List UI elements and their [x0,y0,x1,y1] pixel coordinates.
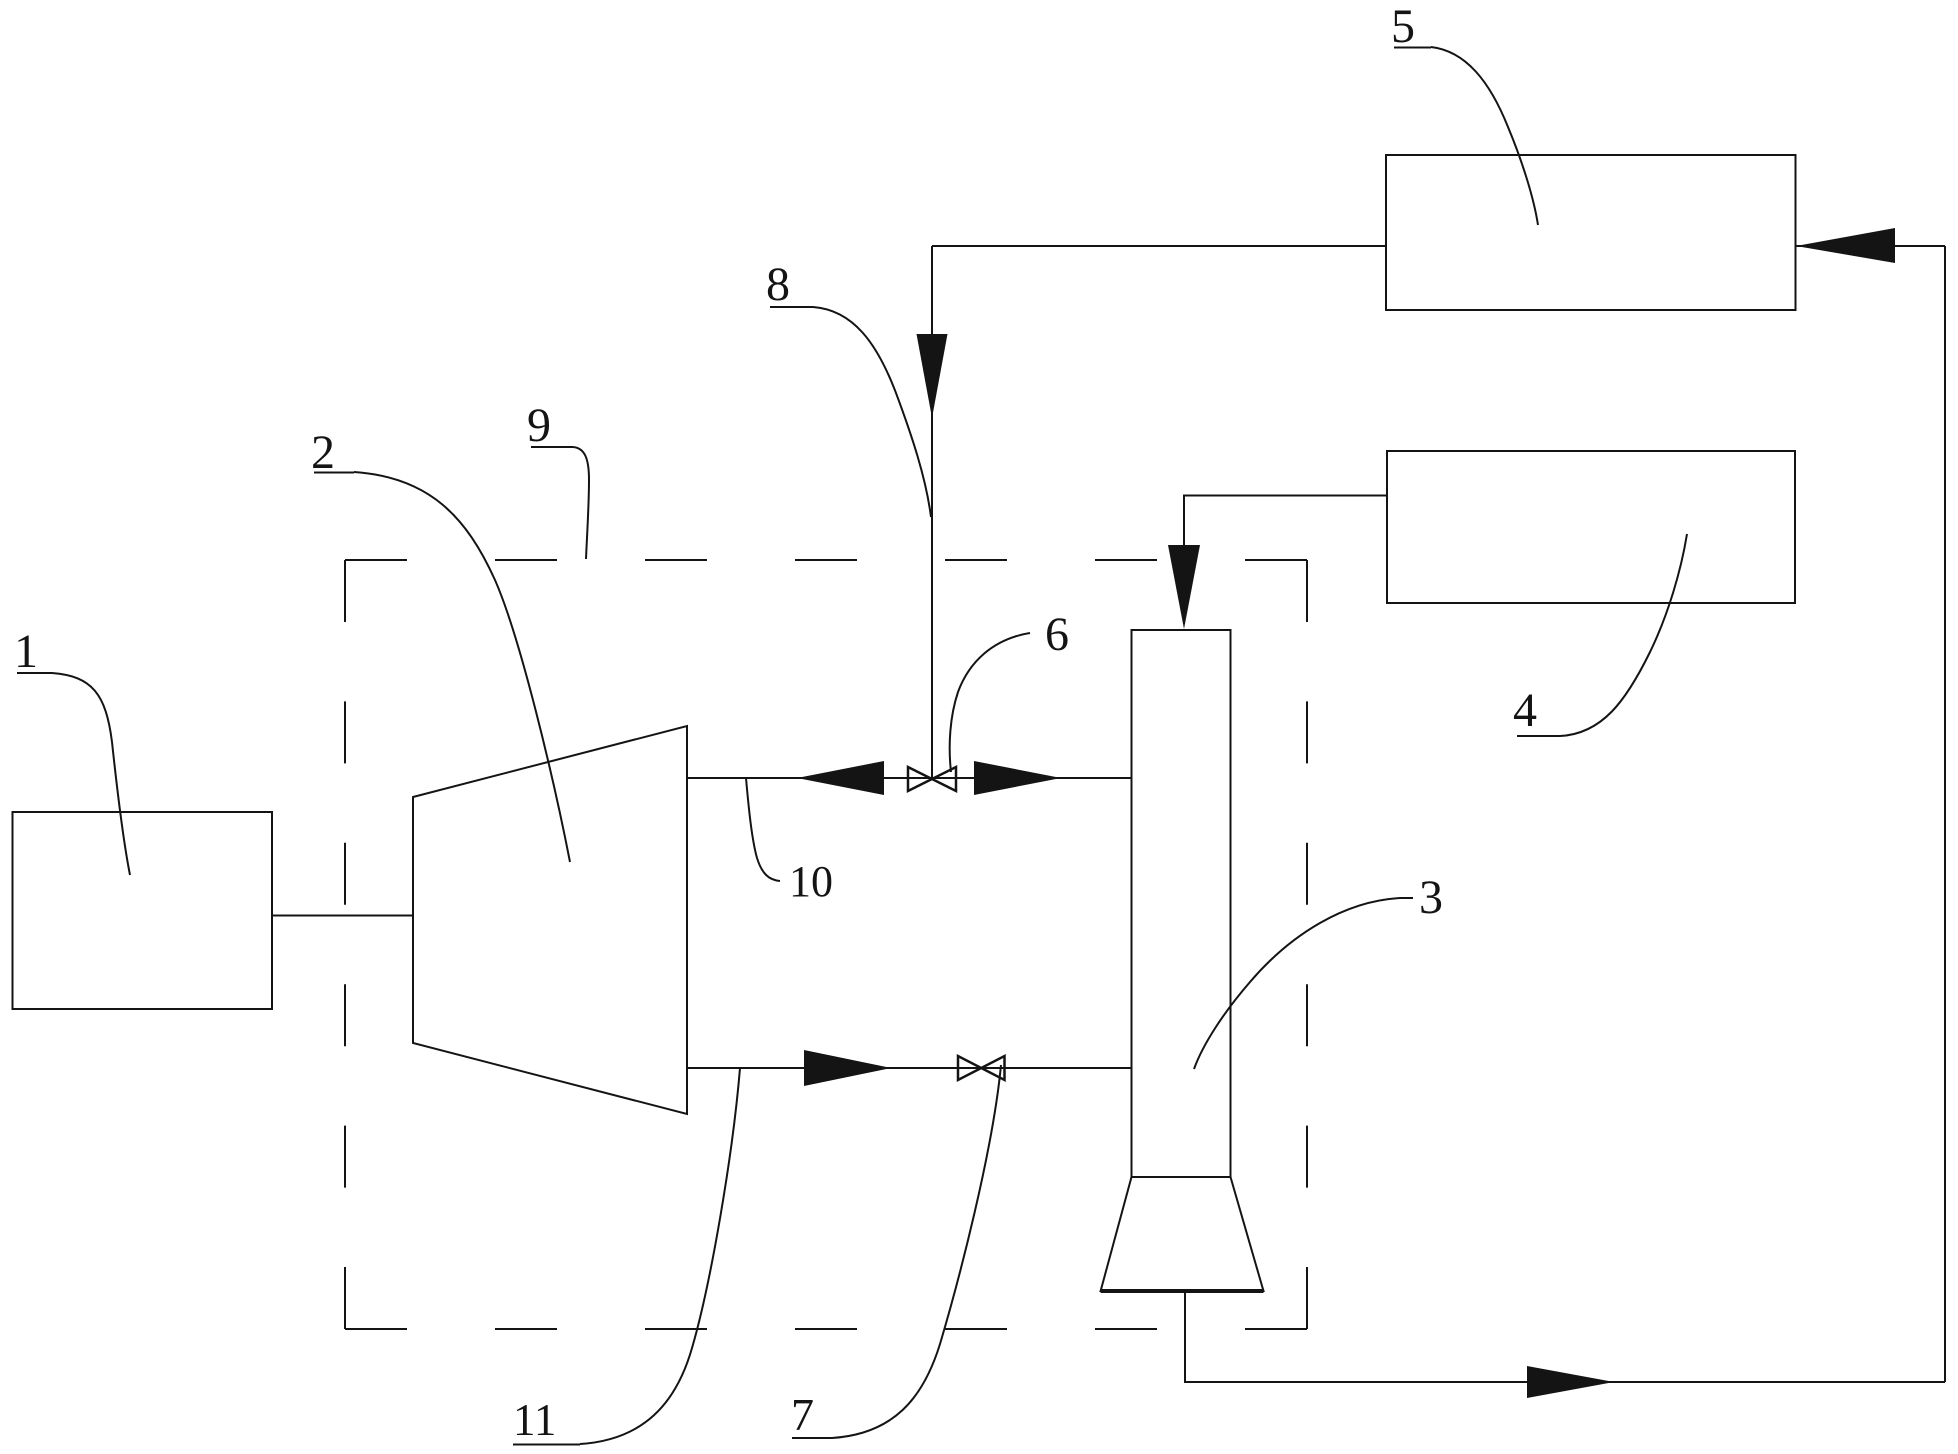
label 1 underline [17,672,52,674]
dashed boundary 9 bottom edge [345,1328,1307,1330]
leader 4 [1560,534,1687,736]
arrow down into column 3 [1168,545,1200,629]
arrow left into box 5 [1796,228,1895,263]
box 4 [1387,451,1795,603]
arrow right on upper line [974,761,1061,795]
label 7 underline [792,1437,832,1439]
box 1 (generator) [13,812,273,1009]
label 2 underline [314,472,354,474]
column 3 flare bottom edge (thick) [1101,1289,1264,1293]
arrow right on lower line [804,1050,891,1086]
leader 3 [1194,898,1413,1069]
valve 6 [908,767,956,791]
leader 5 [1431,47,1538,225]
column 3 flare skirt [1101,1177,1264,1291]
arrow down on line 8 [917,334,948,418]
box 5 [1386,155,1796,310]
turbine 2 (trapezoid) [413,726,687,1114]
leader 1 [52,673,130,875]
leader 7 [832,1065,1001,1438]
svg-text:7: 7 [791,1389,814,1440]
wire shaft box1-turbine [272,915,414,917]
wire top line to box 5 [932,245,1386,247]
svg-text:2: 2 [311,426,335,479]
dashed boundary 9 top edge [345,559,1307,561]
svg-text:3: 3 [1419,871,1443,924]
leader 6 [950,633,1030,772]
wire from box 4 to column [1184,496,1387,546]
dashed boundary 9 right edge [1306,560,1308,1329]
leader 8 [813,307,931,517]
dashed boundary 9 left edge [344,560,346,1329]
svg-text:5: 5 [1391,0,1415,53]
leader 10 [746,778,780,881]
svg-text:11: 11 [513,1395,556,1445]
svg-text:10: 10 [789,857,833,906]
leader 2 [354,472,570,862]
valve 7 [958,1056,1005,1080]
leader 11 [580,1068,740,1444]
label 9 underline [531,446,573,448]
svg-text:4: 4 [1513,684,1537,737]
label 5 underline [1394,47,1431,49]
svg-text:1: 1 [14,625,38,678]
column 3 (exhaust stack) [1132,630,1231,1177]
wire lower exhaust line 11 [687,1067,1132,1069]
wire from right loop into box 5 [1796,245,1946,247]
svg-text:9: 9 [527,399,551,452]
label 4 underline [1517,735,1560,737]
arrow right on bottom drain line [1527,1366,1614,1398]
wire vertical feed line 8 [931,246,933,779]
label 8 underline [770,306,813,308]
wire upper extraction line 10 [687,777,1132,779]
arrow left on upper line [797,761,884,795]
wire drain from column 3 [1185,1291,1945,1382]
leader 9 [573,447,589,559]
svg-text:6: 6 [1045,608,1069,661]
wire right loop vertical [1944,246,1946,1382]
label 11 underline [513,1444,580,1446]
svg-text:8: 8 [766,258,790,311]
